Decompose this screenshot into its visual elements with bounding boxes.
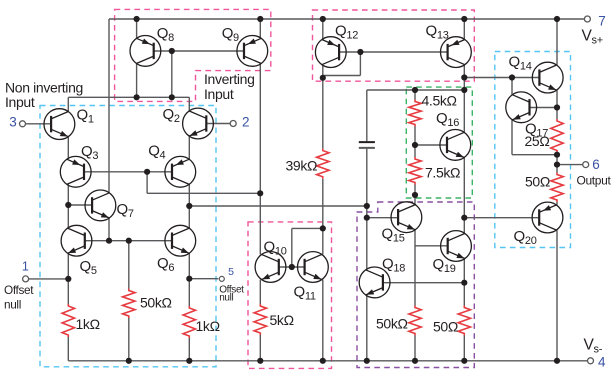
junction Q10-Q11 base — [289, 264, 295, 270]
output stage dashed box (blue) — [495, 52, 571, 248]
transistor Q10 — [255, 252, 286, 283]
terminal 3 non-inverting input — [20, 121, 26, 127]
svg-text:50Ω: 50Ω — [433, 319, 458, 335]
wire Q3 collector to Q5 collector — [67, 184, 69, 228]
transistor Q16 — [440, 130, 471, 161]
transistor Q14 — [532, 62, 563, 93]
transistor Q7 — [85, 190, 116, 221]
wire Q11 emitter drop — [322, 280, 324, 361]
wire Q12 emitter to rail — [322, 19, 324, 40]
wire Q6 emitter drop — [188, 253, 190, 306]
wire output wire — [557, 164, 583, 166]
resistor R11 50ohm (emitter) — [551, 173, 563, 203]
resistor R9 50ohm (output) — [458, 306, 470, 336]
junction Q4-Q6 collector node — [186, 203, 192, 209]
transistor Q2 — [183, 108, 214, 139]
resistor R7 7.5k — [409, 157, 421, 185]
wire cap upper lead — [366, 90, 368, 141]
resistor R6 4.5k — [409, 100, 421, 127]
wire Q17 emitter drop — [511, 120, 513, 155]
junction bias mirror node — [257, 190, 263, 196]
Q10-Q11 current source dashed box (pink) — [248, 222, 332, 369]
junction rail-Q20 — [554, 358, 560, 364]
resistor R8 50k (output) — [409, 306, 421, 336]
wire Q10Q11 base riser — [291, 228, 293, 267]
wire Q9 collector drop — [259, 64, 261, 194]
junction Q15 collector node — [412, 192, 418, 198]
wire Q19 emitter drop — [463, 259, 465, 306]
svg-text:Output: Output — [577, 173, 612, 187]
transistor Q4 — [165, 156, 196, 187]
svg-text:Input: Input — [5, 94, 35, 110]
wire Q3Q4 base bias to mirror — [147, 192, 260, 194]
wire Q7 emitter drop — [108, 218, 110, 241]
wire Q7 base wire — [68, 204, 92, 206]
junction rail-Q11 — [320, 358, 326, 364]
Q16 bias network dashed box (green) — [406, 87, 472, 198]
transistor Q5 — [61, 225, 92, 256]
terminal 5 offset null — [219, 276, 224, 281]
transistor Q8 — [130, 36, 161, 67]
wire Q10 collector riser — [259, 193, 261, 254]
input stage dashed box (blue) — [40, 106, 216, 367]
junction rail-Q14 — [554, 16, 560, 22]
transistor Q6 — [165, 225, 196, 256]
transistor Q17 — [506, 92, 537, 123]
wire Q5-Q6 base rail — [85, 240, 172, 242]
junction Q8 base-collector — [169, 48, 175, 54]
wire 39k to Q11 collector — [322, 179, 324, 255]
junction 50k top node — [126, 238, 132, 244]
svg-text:1: 1 — [22, 259, 29, 273]
wire 50k purple lower lead — [414, 336, 416, 361]
resistor R3 1k (right) — [183, 306, 195, 338]
wire 1k right lower lead — [188, 338, 190, 361]
svg-text:Inverting: Inverting — [204, 71, 255, 87]
svg-text:5: 5 — [228, 266, 234, 278]
terminal 1 offset null — [23, 276, 29, 282]
wire Q4 collector to Q6 collector — [188, 184, 190, 228]
svg-text:4: 4 — [598, 354, 606, 369]
svg-text:1kΩ: 1kΩ — [76, 316, 100, 332]
wire Q8 collector drop — [136, 64, 138, 98]
wire Q14 emitter to 25ohm — [556, 90, 558, 119]
wire Q13 collector to Q14 base — [464, 77, 539, 79]
wire 50ohm purple lower lead — [463, 336, 465, 361]
wire Q5 emitter drop — [67, 253, 69, 304]
wire Q3-Q4 base link — [84, 171, 172, 173]
svg-text:50Ω: 50Ω — [525, 174, 550, 190]
terminal 4 Vs- — [588, 358, 594, 364]
junction Q7 base tap — [65, 202, 71, 208]
junction rail-Q9 — [257, 16, 263, 22]
junction rail-Q8 — [134, 16, 140, 22]
junction output node — [554, 162, 560, 168]
junction rail-Q13 — [461, 16, 467, 22]
junction Q16 base node — [412, 142, 418, 148]
junction Q13 collector node — [461, 74, 467, 80]
junction Q7 emitter node — [106, 238, 112, 244]
svg-text:7: 7 — [598, 13, 605, 28]
wire Q17 base tap — [530, 107, 558, 109]
wire 1k left lower lead — [67, 337, 69, 361]
resistor R1 1k (left) — [62, 304, 74, 337]
wire Q1 collector riser — [67, 97, 69, 111]
transistor Q18 — [359, 267, 390, 298]
wire Q11 collector loop — [292, 227, 323, 229]
wire Q17 collector riser — [511, 78, 513, 95]
wire 5k lower lead — [259, 335, 261, 361]
wire 25ohm to 50ohm link — [556, 153, 558, 173]
terminal 2 inverting input — [230, 121, 236, 127]
transistor Q9 — [237, 36, 268, 67]
svg-text:4.5kΩ: 4.5kΩ — [422, 93, 457, 109]
junction rail-50ohm purple — [461, 358, 467, 364]
svg-text:50kΩ: 50kΩ — [376, 316, 408, 332]
svg-text:1kΩ: 1kΩ — [196, 318, 220, 334]
wire 4.5k upper lead — [414, 90, 416, 100]
wire Q16 emitter to Q19 collector — [463, 158, 465, 234]
junction rail-Q12 — [320, 16, 326, 22]
junction Q12 base — [357, 49, 363, 55]
junction Q17 collector — [509, 74, 515, 80]
transistor Q3 — [60, 156, 91, 187]
wire Q12 collector to 39k — [322, 65, 324, 149]
junction Q11 collector node — [320, 225, 326, 231]
wire Q10 emitter drop — [259, 280, 261, 304]
wire 7.5k lower lead — [414, 185, 416, 205]
junction Q18 base node — [461, 280, 467, 286]
terminal 6 output — [583, 162, 589, 168]
junction rail-Q18 — [364, 358, 370, 364]
junction rail-50k — [126, 358, 132, 364]
transistor Q20 — [532, 202, 563, 233]
capacitor C1 plate upper — [359, 141, 375, 143]
transistor Q19 — [441, 231, 472, 262]
wire Q8 emitter to rail — [136, 19, 138, 38]
junction Q16 collector — [461, 87, 467, 93]
wire 50k lower lead — [128, 318, 130, 361]
wire Q9 emitter to rail — [259, 19, 261, 38]
transistor Q1 — [44, 109, 75, 140]
wire Q14 collector to rail — [556, 19, 558, 65]
junction 4.5k top — [412, 87, 418, 93]
junction second stage input — [364, 203, 370, 209]
junction Q17 base node — [554, 104, 560, 110]
wire Q8 base to collector node — [171, 51, 173, 97]
transistor Q13 — [441, 37, 472, 68]
wire offset null 5 wire — [189, 278, 218, 280]
transistor Q12 — [315, 37, 346, 68]
wire Q17 emitter wire — [512, 154, 557, 156]
wire Q20 collector to Vs- rail — [556, 230, 558, 361]
wire 50ohm to Q20 emitter — [556, 202, 558, 205]
wire cap lower lead to Q18 collector — [366, 149, 368, 270]
wire Q12-Q13 base link — [339, 51, 448, 53]
junction rail-5k — [257, 358, 263, 364]
resistor R4 5k — [254, 304, 266, 335]
transistor Q11 — [298, 252, 329, 283]
junction Q8 collector node — [134, 94, 140, 100]
wire Q18 base wire — [383, 282, 464, 284]
resistor R5 39k — [317, 149, 329, 179]
wire Q2 base to input 2 — [206, 123, 230, 125]
junction Q8 base node — [169, 94, 175, 100]
svg-text:39kΩ: 39kΩ — [286, 158, 318, 174]
svg-text:null: null — [4, 297, 21, 311]
junction Q20 base node — [461, 215, 467, 221]
junction Q17 emitter node — [554, 152, 560, 158]
junction Q15 base node — [364, 215, 370, 221]
wire Vs+ top rail — [109, 18, 584, 20]
wire Q10-Q11 base link — [279, 266, 305, 268]
wire Q2 collector riser — [188, 97, 190, 111]
wire Q19 base wire — [415, 245, 448, 247]
resistor R10 25ohm — [551, 119, 563, 153]
wire Q13 emitter to rail — [463, 19, 465, 40]
svg-text:50kΩ: 50kΩ — [140, 295, 172, 311]
wire input 3 to Q1 base — [26, 123, 52, 125]
wire Vs- bottom rail — [68, 360, 587, 362]
wire offset null 1 wire — [29, 278, 69, 280]
output driver dashed box (purple) — [357, 202, 474, 368]
wire Q4-Q6 collector to second stage — [189, 205, 366, 207]
svg-text:2: 2 — [242, 114, 249, 129]
wire Q7 collector to Vs+ rail — [108, 19, 110, 193]
transistor Q15 — [391, 202, 422, 233]
Q12-Q13 current mirror dashed box (pink) — [313, 10, 475, 81]
junction offset null 1 tap — [65, 276, 71, 282]
wire Q20 base wire — [464, 217, 539, 219]
wire Q16 base wire — [415, 144, 447, 146]
wire 4.5k-7.5k link — [414, 127, 416, 158]
wire Q12 base-collector loop — [323, 75, 361, 77]
junction rail-50k purple — [412, 358, 418, 364]
wire Q1 emitter to Q3 emitter — [67, 137, 69, 160]
svg-text:5kΩ: 5kΩ — [270, 312, 294, 328]
wire Q15 base wire — [367, 217, 398, 219]
wire 50k upper lead — [128, 241, 130, 289]
svg-text:Offset: Offset — [4, 283, 34, 297]
wire second stage top node — [367, 89, 465, 91]
wire Q2 emitter to Q4 emitter — [188, 136, 190, 159]
resistor R2 50k — [123, 289, 135, 319]
wire Q15 emitter drop — [414, 230, 416, 306]
junction rail-1k right — [186, 358, 192, 364]
wire Q12 base drop — [359, 52, 361, 76]
wire Q1-Q2 collector node — [68, 96, 189, 98]
junction offset null 5 tap — [186, 276, 192, 282]
svg-text:25Ω: 25Ω — [525, 133, 550, 149]
junction Q12 collector — [320, 75, 326, 81]
Q8-Q9 current mirror dashed box (pink) — [115, 9, 271, 101]
wire Q18 emitter drop — [366, 295, 368, 361]
wire Q13 collector to Q16 — [463, 65, 465, 133]
wire Q8-Q9 base link — [154, 50, 244, 52]
terminal 7 Vs+ — [584, 16, 590, 22]
svg-text:null: null — [219, 292, 233, 303]
svg-text:7.5kΩ: 7.5kΩ — [425, 165, 460, 181]
junction Q3Q4 base — [144, 169, 150, 175]
wire Q3Q4 base drop — [146, 172, 148, 194]
svg-text:Input: Input — [204, 86, 234, 102]
svg-text:6: 6 — [592, 157, 599, 172]
svg-text:3: 3 — [9, 115, 16, 130]
capacitor C1 plate lower — [359, 147, 375, 149]
